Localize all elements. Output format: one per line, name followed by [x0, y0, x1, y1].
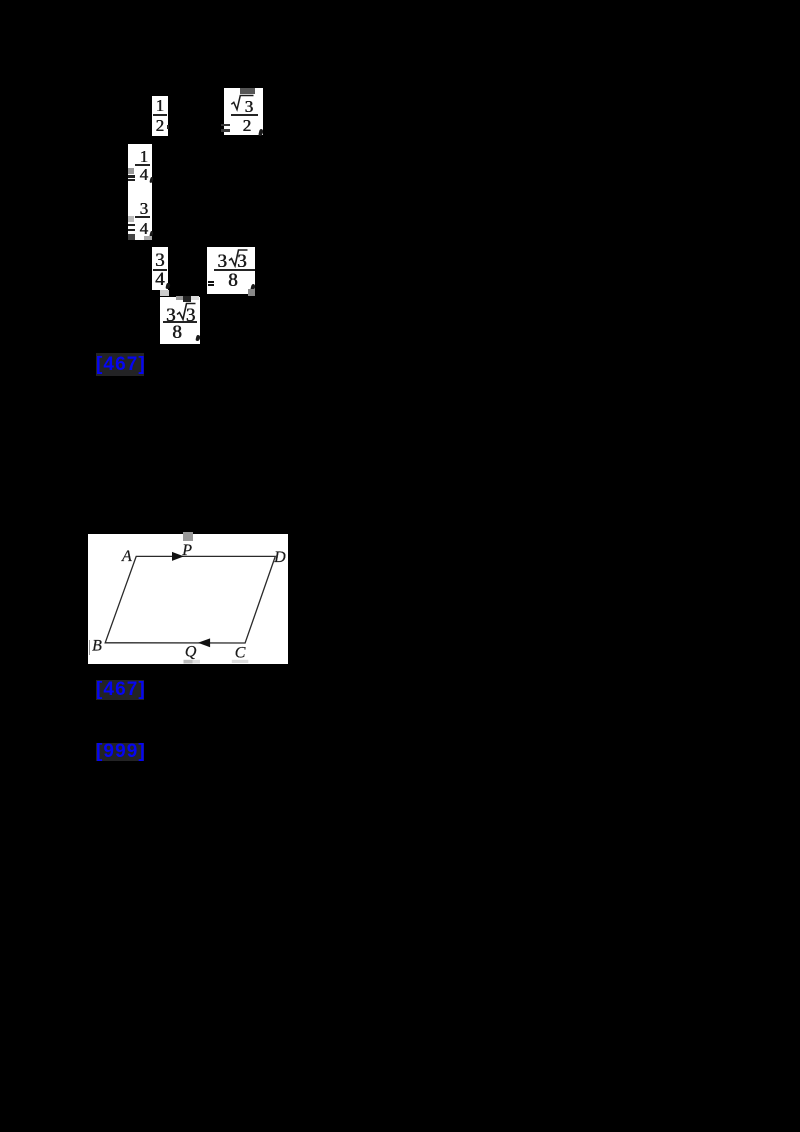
figure: parallelogram ABCD	[88, 534, 288, 664]
fraction 1/2	[152, 96, 168, 136]
fraction 3sqrt(3)/8 (line 6)	[160, 297, 200, 344]
fraction 3/4 (line 5)	[152, 247, 168, 290]
radical of 3sqrt(3)/8 line6	[177, 304, 196, 320]
gray artifact under C	[232, 660, 249, 663]
radical of 3sqrt(3)/8 line5	[229, 250, 248, 266]
svg-text:C: C	[235, 645, 246, 662]
arrow Q on BC	[198, 638, 210, 647]
fraction 3sqrt(3)/8 (line 5)	[207, 247, 255, 294]
fractions 1/4 and 3/4 column	[128, 144, 152, 240]
svg-text:D: D	[273, 549, 286, 566]
arrow P on AD	[172, 552, 184, 561]
link 1	[96, 353, 144, 376]
link 2	[96, 680, 144, 700]
gray artifact under Q	[184, 660, 193, 664]
link 3	[96, 743, 144, 761]
fraction sqrt(3)/2	[224, 88, 263, 135]
svg-text:P: P	[181, 542, 192, 559]
svg-text:B: B	[92, 638, 102, 655]
radical of sqrt(3)/2	[231, 96, 253, 110]
svg-text:Q: Q	[185, 644, 197, 661]
svg-text:A: A	[121, 548, 132, 565]
parallelogram ABCD	[105, 556, 275, 643]
